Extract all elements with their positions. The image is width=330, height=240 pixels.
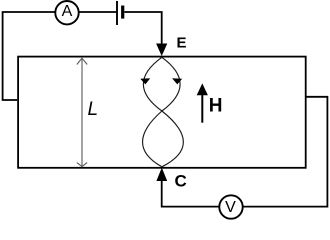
flux curve left-to-right (S-curve) [143, 57, 183, 167]
field arrow H [201, 94, 203, 123]
battery BT1 short plate [121, 6, 124, 19]
sample bar rectangle [18, 57, 306, 168]
wire: top-left loop (left vertical + top horizontal to ammeter + stub to sample) [3, 12, 55, 100]
svg-text:V: V [225, 199, 236, 216]
electrode E arrow (down) [156, 44, 167, 57]
svg-text:E: E [177, 35, 187, 52]
wire: ammeter to battery [79, 11, 116, 13]
svg-text:A: A [62, 3, 73, 20]
ammeter U1 circle [55, 1, 78, 24]
wire: voltmeter right loop back to sample [243, 97, 327, 207]
wire: battery to electrode E corner [124, 12, 161, 44]
battery BT1 long plate [116, 1, 118, 25]
svg-text:C: C [175, 172, 187, 191]
electrode C arrow (up) [156, 168, 167, 181]
svg-text:L: L [88, 99, 99, 120]
arrowhead on right flux curve [172, 78, 182, 84]
wire: electrode C down to voltmeter [162, 180, 219, 207]
svg-text:H: H [209, 96, 223, 117]
dimension line L (vertical double arrow) [77, 58, 87, 166]
voltmeter U2 circle [219, 195, 242, 218]
flux curve right-to-left (S-curve) [143, 57, 181, 167]
arrowhead on left flux curve [140, 78, 150, 84]
